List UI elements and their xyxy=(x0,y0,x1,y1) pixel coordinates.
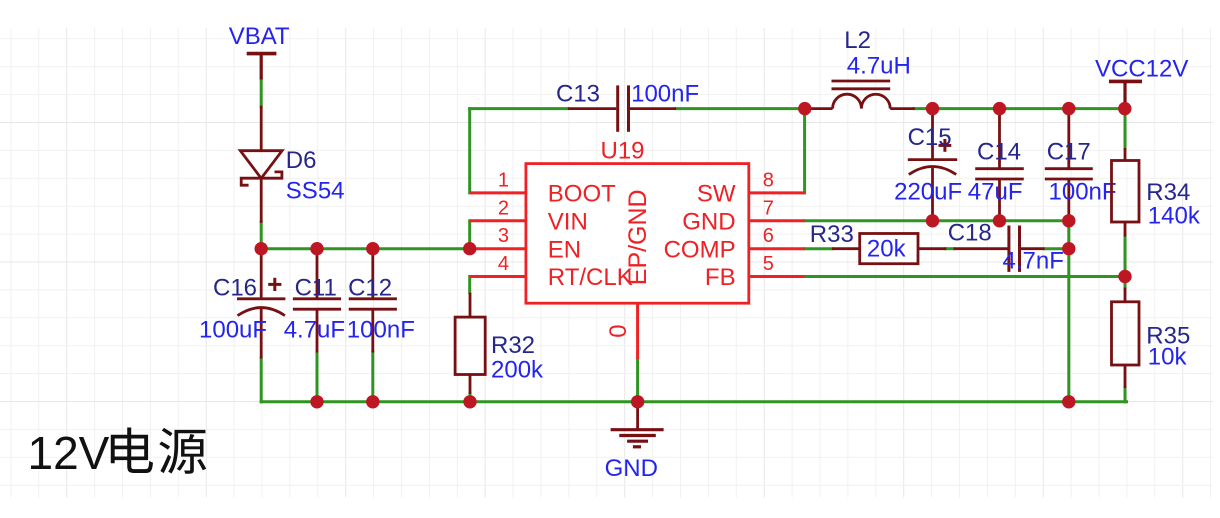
junction xyxy=(993,102,1006,115)
svg-text:GND: GND xyxy=(605,455,658,482)
wire xyxy=(1124,388,1127,402)
resistor R32 200k xyxy=(455,293,544,394)
svg-text:100nF: 100nF xyxy=(347,316,415,343)
capacitor C18 4.7nF xyxy=(948,220,1064,275)
wire xyxy=(260,358,263,402)
svg-text:R32: R32 xyxy=(491,332,535,359)
svg-text:100uF: 100uF xyxy=(199,316,267,343)
svg-text:10k: 10k xyxy=(1148,344,1188,371)
capacitor C14 47uF xyxy=(968,109,1024,221)
pin 4 RT/CLK xyxy=(470,253,633,291)
junction xyxy=(1062,395,1075,408)
op-amp / regulator U19 xyxy=(526,138,749,304)
pin 7 GND xyxy=(682,197,804,235)
wire xyxy=(260,222,263,249)
svg-text:BOOT: BOOT xyxy=(548,181,616,208)
wire xyxy=(371,352,374,402)
pin 1 BOOT xyxy=(470,169,616,207)
diode D6 SS54 xyxy=(240,106,344,223)
svg-text:4.7uF: 4.7uF xyxy=(284,316,345,343)
capacitor C11 4.7uF xyxy=(284,249,345,353)
wire xyxy=(1124,109,1127,148)
svg-text:8: 8 xyxy=(763,169,774,191)
svg-text:C11: C11 xyxy=(295,275,337,302)
junction xyxy=(1062,214,1075,227)
junction xyxy=(993,214,1006,227)
pin 8 SW xyxy=(697,169,805,207)
junction xyxy=(1118,270,1131,283)
svg-text:VCC12V: VCC12V xyxy=(1095,56,1188,83)
svg-text:12V: 12V xyxy=(28,427,110,479)
pin 5 FB xyxy=(705,253,805,291)
svg-text:FB: FB xyxy=(705,264,736,291)
wire xyxy=(636,359,639,402)
svg-text:200k: 200k xyxy=(491,357,544,384)
junction xyxy=(463,242,476,255)
wire xyxy=(470,107,568,110)
svg-text:COMP: COMP xyxy=(664,236,736,263)
capacitor C16 100uF xyxy=(199,249,285,359)
svg-text:C13: C13 xyxy=(556,81,600,108)
junction xyxy=(926,214,939,227)
junction xyxy=(926,102,939,115)
junction xyxy=(798,102,811,115)
svg-text:VBAT: VBAT xyxy=(229,23,290,50)
wire xyxy=(676,107,805,110)
wire xyxy=(804,247,832,250)
wire xyxy=(804,275,1125,278)
capacitor C15 220uF xyxy=(894,109,962,221)
svg-text:U19: U19 xyxy=(601,138,645,165)
svg-text:140k: 140k xyxy=(1148,203,1201,230)
wire xyxy=(1045,247,1069,250)
power port VCC12V xyxy=(1095,56,1188,109)
svg-text:RT/CLK: RT/CLK xyxy=(548,264,633,291)
wire xyxy=(468,109,471,193)
wire xyxy=(914,107,1125,110)
wire xyxy=(804,219,1068,222)
svg-text:4.7nF: 4.7nF xyxy=(1003,248,1064,275)
wire xyxy=(1124,236,1127,288)
svg-text:EP/GND: EP/GND xyxy=(624,189,652,285)
wire xyxy=(468,221,471,249)
wire xyxy=(468,277,471,293)
junction xyxy=(1062,102,1075,115)
svg-text:0: 0 xyxy=(605,324,632,337)
svg-text:SS54: SS54 xyxy=(286,178,345,205)
svg-text:3: 3 xyxy=(498,225,509,247)
junction xyxy=(310,242,323,255)
title 12V电源 xyxy=(28,427,207,479)
svg-text:VIN: VIN xyxy=(548,208,588,235)
svg-text:EN: EN xyxy=(548,236,581,263)
svg-text:220uF: 220uF xyxy=(894,179,962,206)
pin 6 COMP xyxy=(664,225,805,263)
junction xyxy=(1118,102,1131,115)
junction xyxy=(310,395,323,408)
wire xyxy=(803,109,806,193)
svg-text:SW: SW xyxy=(697,181,736,208)
svg-text:C12: C12 xyxy=(348,275,392,302)
svg-text:100nF: 100nF xyxy=(631,81,699,108)
junction xyxy=(366,395,379,408)
svg-text:C15: C15 xyxy=(908,124,952,151)
capacitor C13 100nF xyxy=(556,81,699,132)
svg-text:C17: C17 xyxy=(1047,139,1091,166)
svg-text:1: 1 xyxy=(498,169,509,191)
svg-text:D6: D6 xyxy=(286,147,317,174)
inductor L2 4.7uH xyxy=(811,27,915,109)
svg-text:7: 7 xyxy=(763,197,774,219)
svg-text:20k: 20k xyxy=(867,236,907,263)
wire xyxy=(261,247,470,250)
junction xyxy=(366,242,379,255)
resistor R35 10k xyxy=(1112,288,1191,388)
svg-text:C18: C18 xyxy=(948,220,992,247)
pin 2 VIN xyxy=(470,197,588,235)
pin 3 EN xyxy=(470,225,581,263)
wire xyxy=(261,400,1126,403)
capacitor C17 100nF xyxy=(1045,109,1117,221)
svg-text:GND: GND xyxy=(682,208,735,235)
svg-text:5: 5 xyxy=(763,253,774,275)
junction xyxy=(631,395,644,408)
svg-text:2: 2 xyxy=(498,197,509,219)
svg-text:L2: L2 xyxy=(844,27,871,54)
svg-text:R33: R33 xyxy=(810,221,854,248)
pin 0 EP/GND xyxy=(605,189,652,359)
svg-text:C16: C16 xyxy=(213,275,257,302)
svg-text:4.7uH: 4.7uH xyxy=(847,53,911,80)
wire xyxy=(946,247,954,250)
wire xyxy=(469,394,472,402)
junction xyxy=(1062,242,1075,255)
svg-text:6: 6 xyxy=(763,225,774,247)
wire xyxy=(316,352,319,402)
svg-text:47uF: 47uF xyxy=(968,179,1023,206)
power port VBAT xyxy=(229,23,290,80)
resistor R34 140k xyxy=(1112,148,1201,237)
wire xyxy=(260,79,263,107)
svg-text:4: 4 xyxy=(498,253,509,275)
junction xyxy=(255,242,268,255)
ground GND xyxy=(605,402,664,482)
svg-text:C14: C14 xyxy=(977,139,1021,166)
resistor R33 20k xyxy=(810,221,947,264)
capacitor C12 100nF xyxy=(347,249,415,353)
wire xyxy=(1067,221,1070,402)
svg-text:100nF: 100nF xyxy=(1049,179,1117,206)
junction xyxy=(463,395,476,408)
